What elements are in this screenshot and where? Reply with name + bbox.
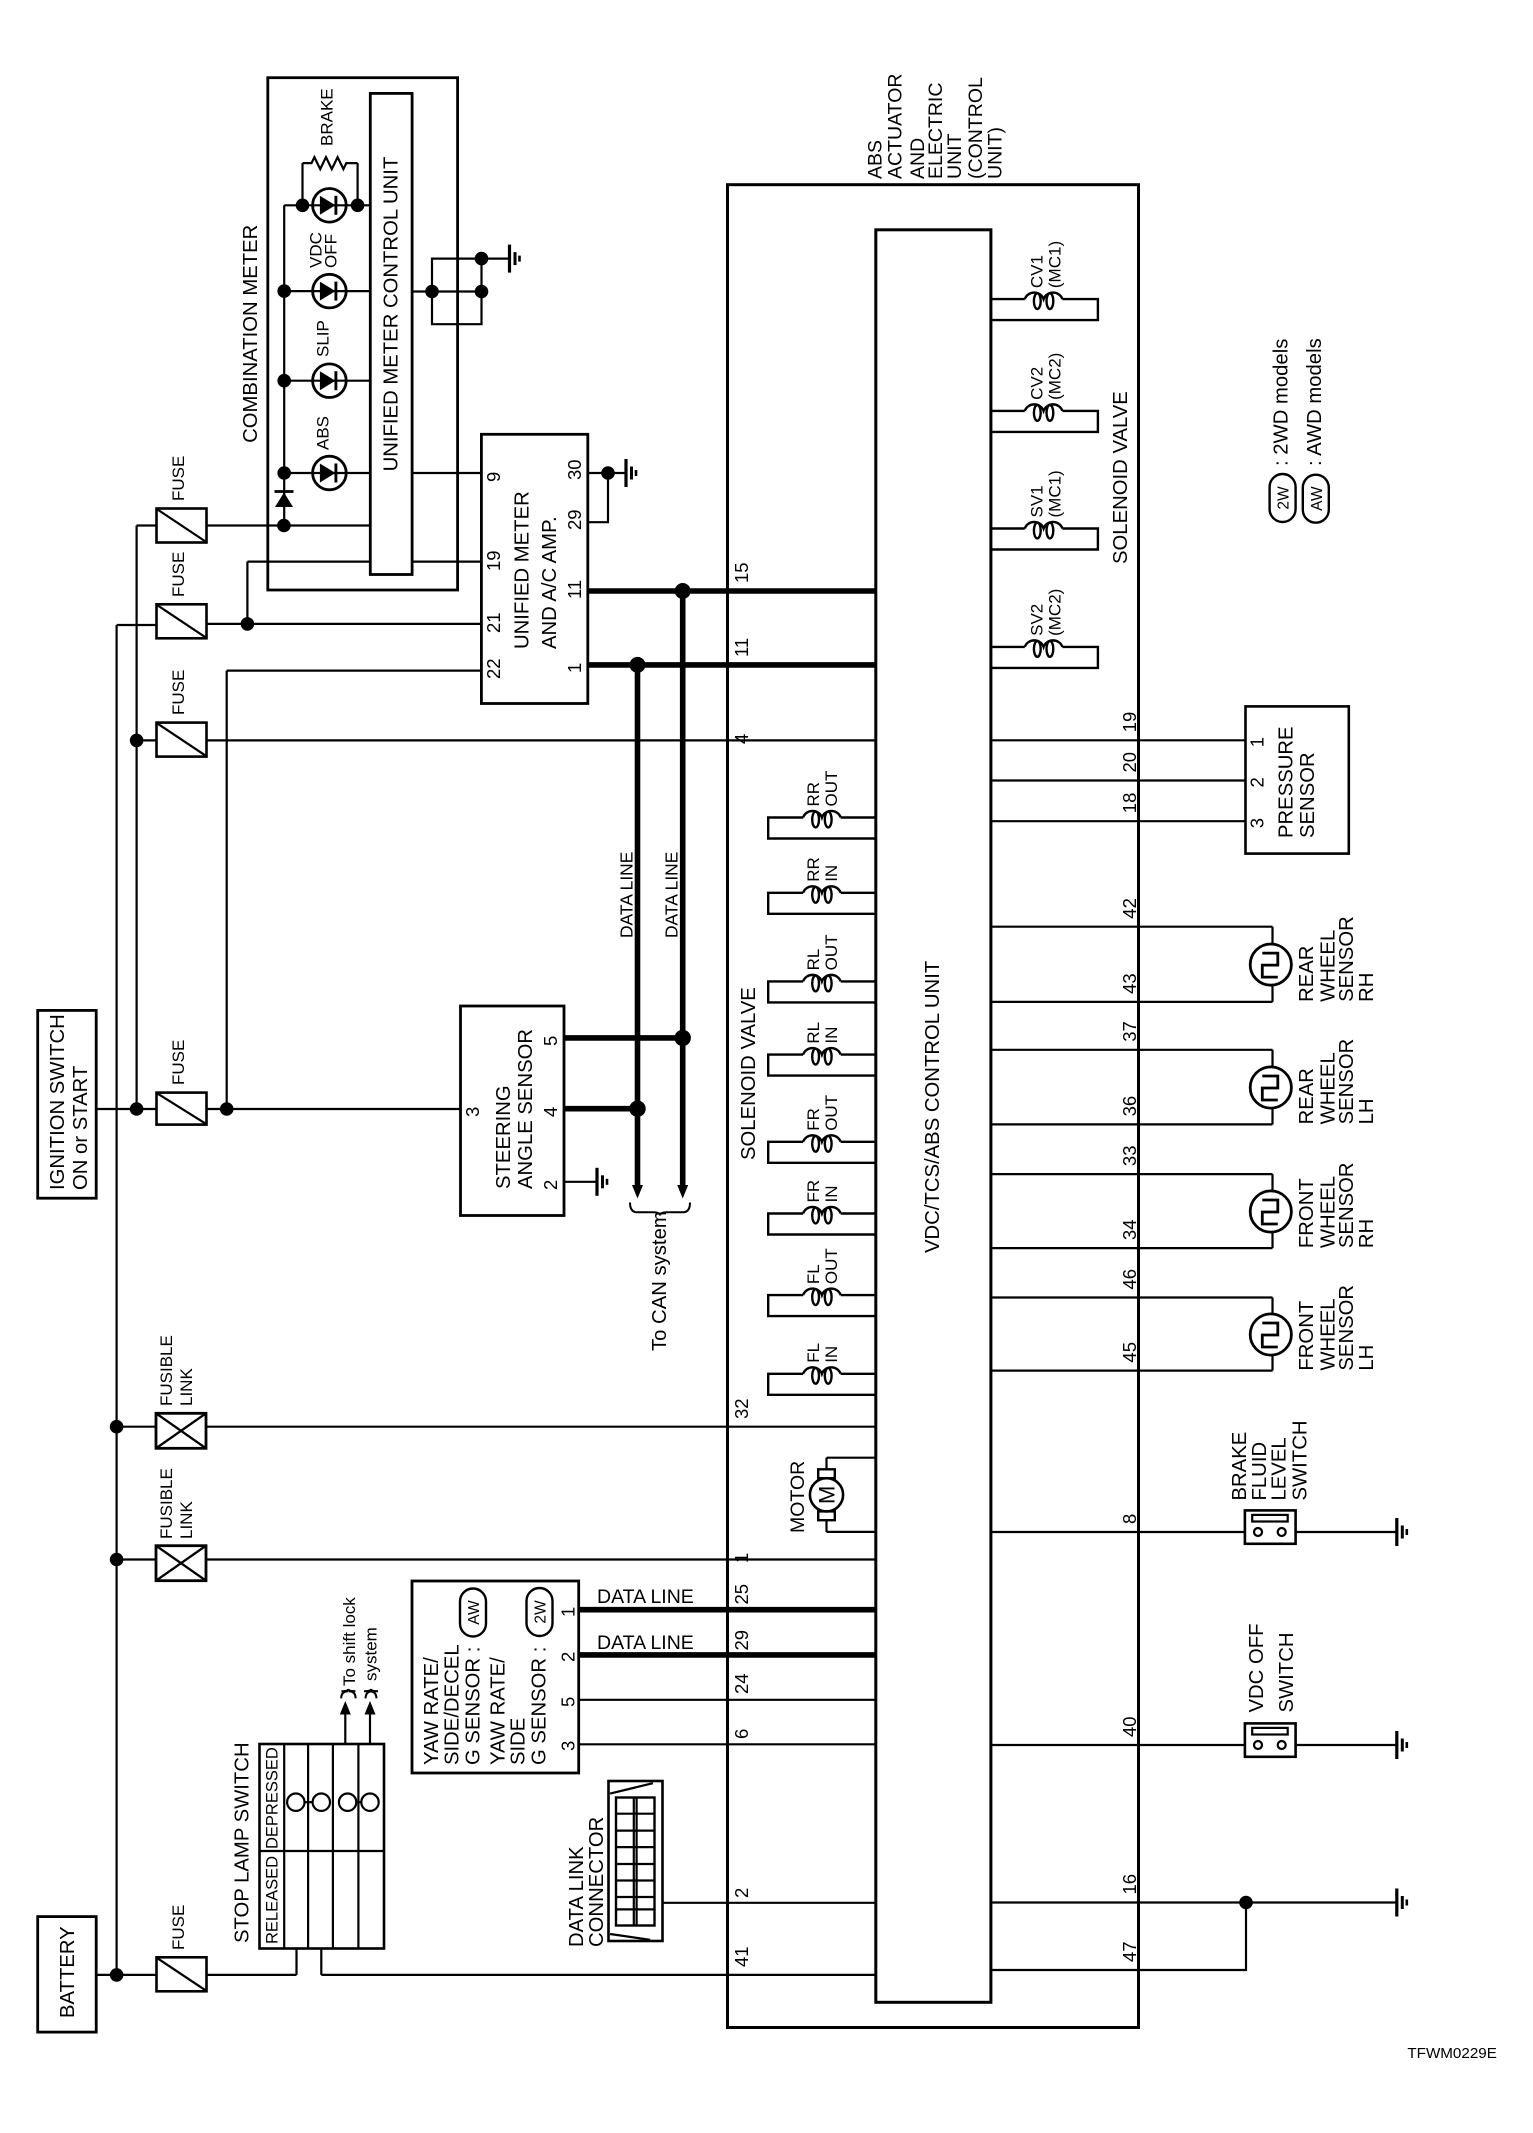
wire VDC OFF switch to ground [1296, 1744, 1397, 1746]
wire pin22 riser [226, 671, 228, 1109]
VDC/TCS/ABS control unit box [876, 230, 991, 2003]
svg-text:FR: FR [804, 1180, 823, 1203]
svg-text:STEERING: STEERING [493, 1085, 515, 1189]
wire to FRONT wheel sensor RH feed [991, 1173, 1273, 1175]
sensor FRONT wheel RH [1250, 1191, 1291, 1232]
wire ignition bus to fuse F1 [137, 524, 157, 526]
wire branch to meter control unit [247, 560, 370, 562]
data link connector J1 [609, 1781, 663, 1941]
svg-text:TFWM0229E: TFWM0229E [1407, 2045, 1496, 2062]
wire ABS pin 25 into unit [728, 1607, 876, 1613]
contact circles stop lamp switch [287, 1794, 304, 1811]
wire ABS lamp row [284, 472, 370, 474]
svg-text:DEPRESSED: DEPRESSED [264, 1747, 282, 1849]
svg-text:37: 37 [1119, 1021, 1140, 1042]
resistor R1 brake bulb-check bypass [301, 163, 303, 205]
node diode bottom junction [277, 519, 291, 533]
svg-text:4: 4 [731, 734, 752, 744]
svg-text:FL: FL [804, 1264, 823, 1284]
svg-text:FRONT: FRONT [1296, 1178, 1318, 1248]
solenoid valve RL IN [768, 1055, 876, 1076]
wire fuse F4 to ignition switch [207, 1108, 461, 1110]
wire CAN-H amp pin 11 to ABS pin 15 [588, 588, 728, 594]
node meter ground top [475, 252, 489, 266]
svg-text:LH: LH [1356, 1098, 1378, 1124]
wire yaw pin 2 to ABS pin 29 data line [579, 1652, 728, 1658]
svg-text:FUSE: FUSE [169, 552, 188, 597]
svg-text:ABS: ABS [864, 140, 886, 179]
wire pin 16 to ground [991, 1901, 1397, 1903]
fuse F2 [157, 604, 207, 638]
svg-text:RH: RH [1356, 1219, 1378, 1248]
svg-text:IGNITION SWITCH: IGNITION SWITCH [47, 1014, 69, 1190]
fusible link FL-A [156, 1413, 206, 1448]
svg-text:UNIFIED METER: UNIFIED METER [512, 491, 534, 649]
node meter ground junction 1 [425, 285, 439, 299]
svg-text:FUSIBLE: FUSIBLE [157, 1468, 176, 1539]
unified meter and A/C amp U3 [481, 434, 587, 703]
svg-text:LEVEL: LEVEL [1269, 1437, 1291, 1500]
wire pin 47 loop [991, 1903, 1246, 1971]
fuse F1 [157, 509, 207, 543]
svg-text:42: 42 [1119, 898, 1140, 919]
wire steering pin 4 to CAN-L [564, 1106, 638, 1112]
ground pins 16 and 47 [1395, 1889, 1398, 1917]
svg-text:UNIT): UNIT) [985, 127, 1007, 179]
svg-text:CV1: CV1 [1028, 255, 1047, 288]
svg-text:OUT: OUT [822, 935, 841, 971]
svg-text:21: 21 [483, 612, 504, 633]
label 2W capsule [527, 1588, 553, 1636]
sensor REAR wheel LH [1250, 1067, 1291, 1108]
solenoid valve RR OUT [768, 818, 876, 839]
wire battery output [96, 1974, 156, 1976]
svg-text:SWITCH: SWITCH [1290, 1421, 1312, 1501]
svg-text:M: M [815, 1486, 840, 1504]
stop lamp switch SW2 [260, 1744, 385, 1949]
node amp ground junction [601, 466, 615, 480]
svg-text:47: 47 [1119, 1941, 1140, 1962]
svg-text:SLIP: SLIP [314, 320, 333, 357]
combination meter box [268, 78, 458, 590]
fusible link FL-B [156, 1546, 206, 1581]
svg-text:system: system [362, 1627, 381, 1681]
VDC OFF switch SW4 [1245, 1723, 1296, 1756]
svg-text:2: 2 [731, 1888, 752, 1898]
wire yaw pin 1 to ABS pin 25 data line [579, 1607, 728, 1613]
svg-text:RELEASED: RELEASED [264, 1856, 282, 1944]
wire riser to amp pin 22 [227, 669, 482, 671]
solenoid valve CV1 (MC1) [991, 298, 1025, 300]
node bus SLIP tap [277, 374, 291, 388]
fuse F4 ignition [157, 1093, 207, 1125]
solenoid valve FR OUT [768, 1142, 876, 1163]
svg-text:1: 1 [558, 1607, 579, 1617]
svg-text:25: 25 [731, 1584, 752, 1605]
wire SLIP lamp row [284, 380, 370, 382]
svg-text:RR: RR [804, 857, 823, 882]
svg-text:SENSOR: SENSOR [1336, 1285, 1358, 1371]
ignition switch SW1 [38, 1010, 96, 1198]
svg-text:5: 5 [540, 1036, 561, 1046]
svg-text:CONNECTOR: CONNECTOR [586, 1817, 608, 1947]
svg-text:4: 4 [540, 1107, 561, 1117]
ground VDC OFF switch [1395, 1731, 1398, 1759]
node pin 47 junction [1239, 1896, 1253, 1910]
svg-text:SOLENOID VALVE: SOLENOID VALVE [1110, 391, 1132, 564]
wire to meter ground [482, 258, 510, 260]
wire CAN-H data line vertical [680, 591, 686, 1185]
node resistor stub left [296, 199, 310, 213]
svg-text:DATA LINE: DATA LINE [617, 852, 637, 938]
node pin22 riser tap [220, 1102, 234, 1116]
svg-text:BRAKE: BRAKE [318, 88, 337, 146]
svg-text:LH: LH [1356, 1345, 1378, 1371]
diode D1 meter bus [275, 490, 294, 493]
wire pin 8 to brake fluid level switch [991, 1531, 1245, 1533]
svg-text:CV2: CV2 [1028, 367, 1047, 400]
svg-text:3: 3 [1247, 818, 1268, 828]
wire stop lamp to shift lock 2 [369, 1715, 371, 1745]
wire steering pin 5 to CAN-H [564, 1035, 683, 1041]
wire FRONT wheel sensor LH return [1271, 1355, 1273, 1371]
svg-text:G SENSOR :: G SENSOR : [529, 1647, 551, 1765]
fuse F3 [157, 723, 207, 757]
svg-text:SIDE: SIDE [508, 1718, 530, 1765]
wire fusible link B to ABS pin 1 [206, 1558, 876, 1560]
wire fusible link A to ABS pin 32 [206, 1426, 876, 1428]
wire ABS pin 6 into unit [728, 1743, 876, 1745]
svg-text:SENSOR: SENSOR [1336, 1039, 1358, 1125]
svg-text:FLUID: FLUID [1249, 1442, 1271, 1501]
wire ABS pin 2 into unit [728, 1902, 876, 1904]
svg-text:11: 11 [564, 580, 585, 599]
wire battery bus vertical [115, 625, 117, 1975]
wire ignition bus vertical [136, 526, 138, 1110]
svg-text:41: 41 [731, 1946, 752, 1967]
svg-text:REAR: REAR [1296, 946, 1318, 1002]
svg-text:FRONT: FRONT [1296, 1301, 1318, 1371]
ground steering [595, 1168, 598, 1196]
solenoid valve FL OUT [768, 1295, 876, 1316]
svg-text:OUT: OUT [822, 771, 841, 807]
svg-text:15: 15 [731, 562, 752, 583]
legend AW capsule [1303, 475, 1329, 523]
svg-text:OUT: OUT [822, 1248, 841, 1284]
svg-text:SENSOR: SENSOR [1336, 916, 1358, 1002]
wire DLC to ABS pin 2 [663, 1902, 728, 1904]
pressure sensor U6 [1246, 706, 1349, 853]
svg-text:19: 19 [483, 550, 504, 571]
svg-text:FL: FL [804, 1343, 823, 1363]
svg-text:2: 2 [558, 1652, 579, 1662]
steering angle sensor U4 [461, 1006, 565, 1216]
svg-text:UNIT: UNIT [944, 133, 966, 179]
wire stop lamp switch to ABS pin 41 [320, 1949, 322, 1975]
svg-text:AND A/C AMP.: AND A/C AMP. [539, 516, 561, 649]
svg-text:3: 3 [462, 1107, 483, 1117]
wire fusible link B to battery bus [117, 1558, 156, 1560]
svg-text:(MC1): (MC1) [1046, 241, 1065, 288]
wire stop lamp to shift lock 1 [344, 1715, 346, 1745]
svg-text:REAR: REAR [1296, 1068, 1318, 1124]
svg-text:PRESSURE: PRESSURE [1276, 726, 1298, 838]
sensor REAR wheel RH [1250, 944, 1291, 985]
svg-text:6: 6 [731, 1729, 752, 1739]
svg-text:40: 40 [1119, 1716, 1140, 1737]
node CAN-H junction [675, 583, 691, 599]
wire pin 20 to pressure sensor pin 2 [991, 779, 1246, 781]
node meter ground junction 2 [475, 285, 489, 299]
solenoid valve SV1 (MC1) [991, 527, 1025, 529]
svg-text:1: 1 [564, 663, 585, 673]
wire switch to ground [1296, 1531, 1397, 1533]
wire yaw pin 5 to ABS pin 24 [579, 1699, 728, 1701]
lamp VDC OFF warning LED [313, 274, 347, 308]
wire ABS pin 15 into unit [728, 588, 876, 594]
svg-text:24: 24 [731, 1673, 752, 1694]
svg-text:1: 1 [731, 1553, 752, 1563]
svg-text:SIDE/DECEL: SIDE/DECEL [442, 1644, 464, 1765]
svg-text:DATA LINE: DATA LINE [597, 1632, 694, 1654]
wire ignition bus to fuse F3 [137, 739, 157, 741]
node fuse F3 tap [130, 734, 144, 748]
svg-text:IN: IN [822, 1186, 841, 1203]
fuse F5 battery [157, 1957, 207, 1991]
svg-text:FUSIBLE: FUSIBLE [157, 1335, 176, 1406]
svg-text:FR: FR [804, 1108, 823, 1131]
wire meter control unit to amp pin 9 [412, 472, 481, 474]
svg-text:DATA LINE: DATA LINE [662, 852, 682, 938]
ground amp [624, 459, 627, 487]
svg-text:MOTOR: MOTOR [787, 1461, 809, 1533]
wire ABS pin 24 into unit [728, 1699, 876, 1701]
svg-text:IN: IN [822, 865, 841, 882]
svg-text:SV1: SV1 [1028, 485, 1047, 517]
solenoid valve SV2 (MC2) [991, 646, 1025, 648]
lamp ABS warning LED [313, 456, 347, 490]
wire to REAR wheel sensor RH feed [991, 926, 1273, 928]
wire pin19 branch riser [246, 562, 248, 624]
svg-text:G SENSOR :: G SENSOR : [463, 1647, 485, 1765]
svg-text:29: 29 [564, 509, 585, 530]
wire pin 19 to pressure sensor pin 1 [991, 739, 1246, 741]
wire ignition output [96, 1108, 156, 1110]
svg-text:22: 22 [483, 658, 504, 679]
svg-text:RH: RH [1356, 973, 1378, 1002]
svg-text:UNIFIED METER CONTROL UNIT: UNIFIED METER CONTROL UNIT [380, 157, 402, 472]
ABS actuator and electric unit box [728, 185, 1139, 2028]
legend 2W capsule [1270, 474, 1296, 522]
wire to FRONT wheel sensor LH feed [991, 1296, 1273, 1298]
wire amp pin 30 to ground [588, 472, 626, 474]
battery B1 [38, 1917, 96, 2033]
wire FRONT wheel sensor RH return [1271, 1232, 1273, 1248]
svg-text:: AWD models: : AWD models [1304, 338, 1326, 466]
svg-text:OUT: OUT [822, 1095, 841, 1131]
wire fusible link A to battery bus [117, 1426, 156, 1428]
svg-text:46: 46 [1119, 1269, 1140, 1290]
svg-text:30: 30 [564, 459, 585, 480]
yaw rate / side / decel G sensor U5 [412, 1581, 579, 1773]
node bus VDC OFF tap [277, 284, 291, 298]
svg-text:ANGLE SENSOR: ANGLE SENSOR [515, 1029, 537, 1189]
wire ABS pin 4 into unit [728, 739, 876, 741]
svg-text:2W: 2W [533, 1600, 550, 1624]
svg-text:43: 43 [1119, 973, 1140, 994]
lamp BRAKE warning LED [313, 189, 347, 223]
brace to shift lock 2 [364, 1689, 378, 1699]
svg-text:33: 33 [1119, 1146, 1140, 1167]
svg-text:OFF: OFF [321, 234, 340, 268]
node resistor stub right [351, 199, 365, 213]
wire fuse F1 to meter [207, 524, 371, 526]
wire REAR wheel sensor LH return [1271, 1108, 1273, 1124]
svg-text:FUSE: FUSE [169, 1040, 188, 1085]
svg-text:SENSOR: SENSOR [1336, 1162, 1358, 1248]
node bus ABS tap [277, 466, 291, 480]
svg-text:(MC2): (MC2) [1046, 589, 1065, 636]
wire VDC OFF lamp row [284, 290, 370, 292]
svg-text:34: 34 [1119, 1220, 1140, 1241]
svg-text:ACTUATOR: ACTUATOR [885, 74, 907, 179]
svg-text:VDC OFF: VDC OFF [1246, 1623, 1268, 1712]
svg-text:To shift lock: To shift lock [340, 1597, 359, 1686]
svg-text:FUSE: FUSE [169, 670, 188, 715]
svg-text:RR: RR [804, 782, 823, 807]
svg-text:2: 2 [540, 1180, 561, 1190]
wire meter control unit to amp pin 19 [412, 560, 481, 562]
wire to REAR wheel sensor LH feed [991, 1049, 1273, 1051]
svg-text:SOLENOID VALVE: SOLENOID VALVE [738, 987, 760, 1160]
node CAN-L junction [630, 657, 646, 673]
svg-text:YAW RATE/: YAW RATE/ [421, 1657, 443, 1765]
svg-text:(MC1): (MC1) [1046, 470, 1065, 517]
svg-text:AW: AW [1309, 486, 1326, 511]
svg-text:: 2WD models: : 2WD models [1271, 339, 1293, 466]
svg-text:COMBINATION METER: COMBINATION METER [240, 225, 262, 443]
wire fuse F2 to amp pin 21 [207, 623, 482, 625]
svg-text:3: 3 [558, 1741, 579, 1751]
svg-text:8: 8 [1119, 1514, 1140, 1524]
svg-text:5: 5 [558, 1697, 579, 1707]
node fusible link 2 tap [110, 1553, 124, 1567]
wire amp pin 29 loop [588, 473, 608, 522]
wire fuse F3 to ABS pin 4 [207, 739, 728, 741]
wire steering pin 2 to ground [564, 1181, 597, 1183]
meter control unit U2 [370, 93, 412, 574]
svg-text:DATA LINK: DATA LINK [566, 1846, 588, 1947]
wire fuse F5 to stop lamp switch [207, 1974, 297, 1976]
wire ABS pin 41 into unit [728, 1974, 876, 1976]
svg-text:19: 19 [1119, 712, 1140, 733]
brake fluid level switch SW3 [1245, 1510, 1296, 1543]
svg-text:36: 36 [1119, 1096, 1140, 1117]
svg-text:RL: RL [804, 949, 823, 971]
svg-text:2W: 2W [1276, 486, 1293, 510]
lamp SLIP warning LED [313, 364, 347, 398]
wire control unit ground row [412, 290, 481, 292]
svg-text:20: 20 [1119, 752, 1140, 773]
svg-text:FUSE: FUSE [169, 1905, 188, 1950]
svg-text:11: 11 [731, 638, 752, 657]
svg-text:32: 32 [731, 1398, 752, 1419]
svg-text:2: 2 [1247, 777, 1268, 787]
svg-text:(MC2): (MC2) [1046, 353, 1065, 400]
svg-text:RL: RL [804, 1022, 823, 1044]
svg-text:LINK: LINK [177, 1501, 196, 1539]
svg-text:STOP LAMP SWITCH: STOP LAMP SWITCH [232, 1742, 254, 1943]
svg-text:To CAN system: To CAN system [649, 1211, 671, 1351]
solenoid valve CV2 (MC2) [991, 410, 1025, 412]
solenoid valve FR IN [768, 1214, 876, 1235]
svg-text:DATA LINE: DATA LINE [597, 1586, 694, 1608]
svg-text:SENSOR: SENSOR [1297, 752, 1319, 838]
svg-text:SWITCH: SWITCH [1276, 1633, 1298, 1713]
node battery junction [110, 1968, 124, 1982]
wire CAN-L amp pin 1 to ABS pin 11 [588, 662, 728, 668]
brace to shift lock 1 [341, 1689, 355, 1699]
svg-text:YAW RATE/: YAW RATE/ [488, 1657, 510, 1765]
wire BRAKE lamp row [284, 204, 370, 206]
svg-text:LINK: LINK [177, 1368, 196, 1406]
wire REAR wheel sensor RH return [1271, 985, 1273, 1002]
solenoid valve RL OUT [768, 981, 876, 1002]
wire CAN-L data line vertical [635, 665, 641, 1185]
solenoid valve RR IN [768, 893, 876, 914]
svg-text:IN: IN [822, 1346, 841, 1363]
ground meter [508, 245, 511, 273]
svg-text:16: 16 [1119, 1874, 1140, 1895]
node ignition bus junction [130, 1102, 144, 1116]
node CAN-H steering tap [675, 1030, 691, 1046]
sensor FRONT wheel LH [1250, 1314, 1291, 1355]
wire yaw pin 3 to ABS pin 6 [579, 1743, 728, 1745]
svg-text:1: 1 [1247, 737, 1268, 747]
wire ABS pin 11 into unit [728, 662, 876, 668]
svg-text:ON or START: ON or START [70, 1066, 92, 1190]
motor M1 pump [827, 1457, 876, 1459]
svg-text:ABS: ABS [314, 416, 333, 450]
wire meter internal bus [283, 205, 285, 525]
svg-text:29: 29 [731, 1630, 752, 1651]
brace To CAN system [630, 1203, 690, 1216]
svg-text:IN: IN [822, 1027, 841, 1044]
svg-text:SV2: SV2 [1028, 604, 1047, 636]
svg-text:9: 9 [483, 472, 504, 482]
svg-text:18: 18 [1119, 793, 1140, 814]
wire pin 40 to VDC OFF switch [991, 1744, 1245, 1746]
svg-text:VDC/TCS/ABS CONTROL UNIT: VDC/TCS/ABS CONTROL UNIT [922, 961, 944, 1253]
wire pin 18 to pressure sensor pin 3 [991, 820, 1246, 822]
solenoid valve FL IN [768, 1374, 876, 1395]
svg-text:AW: AW [466, 1600, 483, 1625]
wire battery bus to fuse F2 [117, 624, 157, 626]
svg-text:45: 45 [1119, 1342, 1140, 1363]
wire ABS pin 29 into unit [728, 1652, 876, 1658]
svg-text:BRAKE: BRAKE [1229, 1432, 1251, 1501]
ground brake fluid switch [1395, 1518, 1398, 1546]
label AW capsule [460, 1589, 486, 1637]
node pin19 branch [241, 617, 255, 631]
svg-text:FUSE: FUSE [169, 456, 188, 501]
svg-text:BATTERY: BATTERY [57, 1926, 79, 2018]
node CAN-L steering tap [629, 1101, 645, 1117]
wire meter ground loop [432, 259, 482, 325]
node fusible link 1 tap [110, 1420, 124, 1434]
